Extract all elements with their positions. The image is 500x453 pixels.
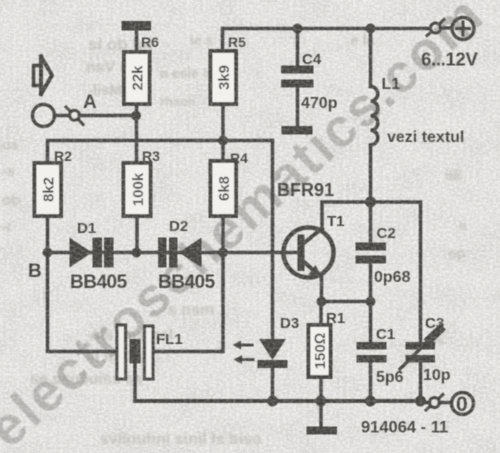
junction L1 / rail bbox=[366, 24, 376, 34]
capacitor C2 bbox=[356, 202, 387, 302]
top rail wire bbox=[223, 27, 431, 31]
LED D3 bbox=[258, 339, 288, 401]
wire R5 to R4 bbox=[221, 104, 225, 162]
wire emitter to C1 bbox=[322, 300, 371, 304]
junction D3 / rail bbox=[267, 396, 278, 407]
resistor R2 bbox=[35, 163, 62, 216]
emitter node junction bbox=[317, 297, 327, 307]
junction C2/C1 bbox=[366, 297, 376, 307]
supply bar terminal above R6 bbox=[122, 21, 152, 31]
wire FL1 centre tap to ground rail bbox=[133, 364, 137, 402]
bias bus wire bbox=[48, 141, 273, 164]
ceramic filter FL1 bbox=[117, 325, 153, 379]
wire R3 to varicap midpoint bbox=[135, 216, 139, 253]
output plug connector bbox=[426, 395, 443, 411]
resistor R1 bbox=[309, 302, 331, 402]
junction C1 / rail bbox=[365, 396, 376, 407]
resistor R3 bbox=[124, 163, 151, 216]
bottom 0V rail bbox=[135, 399, 421, 403]
wire rail corner down to R5 bbox=[221, 29, 225, 52]
varicap diode D2 bbox=[158, 238, 202, 268]
0V terminal bbox=[452, 393, 474, 417]
capacitor C4 bbox=[281, 29, 314, 127]
junction L1 / collector / C2 / C3 bbox=[365, 197, 376, 208]
output wire rail to plug bbox=[421, 401, 430, 405]
node B junction bbox=[43, 248, 53, 258]
ground stub and bar below R1 bbox=[307, 401, 338, 435]
resistor R5 bbox=[211, 51, 237, 104]
junction R3/varicaps bbox=[132, 248, 142, 258]
wire node to C3 bbox=[371, 202, 421, 342]
resistor R4 bbox=[211, 161, 237, 216]
junction C4 / rail bbox=[293, 24, 303, 34]
capacitor C1 bbox=[357, 302, 387, 402]
resistor R6 bbox=[124, 52, 150, 104]
wire socket to plug bbox=[55, 114, 70, 118]
junction R1 / rail bbox=[316, 396, 327, 407]
wire R6 to node A to R3 bbox=[135, 104, 139, 163]
inductor L1 bbox=[371, 29, 378, 203]
wire row junction down to FL1 right bbox=[153, 253, 223, 352]
supply plug connector bbox=[427, 20, 444, 36]
transistor T1 bbox=[284, 228, 334, 278]
wire plug to node A bbox=[80, 114, 136, 118]
emitter wire bbox=[320, 276, 324, 302]
wire plug to 0V terminal bbox=[440, 401, 452, 405]
antenna symbol bbox=[34, 57, 53, 95]
varicap row wire bbox=[48, 251, 298, 255]
junction R4/FL1/row bbox=[218, 248, 228, 258]
wire R4 down bbox=[221, 216, 225, 253]
ground bar under C4 bbox=[282, 126, 313, 135]
wire bar to R6 bbox=[135, 30, 139, 52]
antenna socket circle bbox=[33, 105, 55, 127]
bus corner down to LED D3 bbox=[271, 141, 275, 340]
LED arrows bbox=[233, 341, 254, 365]
plug connector at A bbox=[66, 107, 83, 125]
collector wire bbox=[322, 202, 371, 229]
trimmer capacitor C3 bbox=[400, 330, 440, 402]
+ supply terminal bbox=[452, 18, 474, 40]
node A junction bbox=[131, 111, 141, 121]
wire R2 to node B bbox=[46, 216, 50, 253]
wire B down to FL1 bbox=[48, 253, 118, 352]
junction C3 / rail / output bbox=[415, 396, 426, 407]
junction R5/R4/bus bbox=[218, 136, 228, 146]
wire plug to + terminal bbox=[441, 26, 453, 30]
varicap diode D1 bbox=[70, 238, 114, 268]
